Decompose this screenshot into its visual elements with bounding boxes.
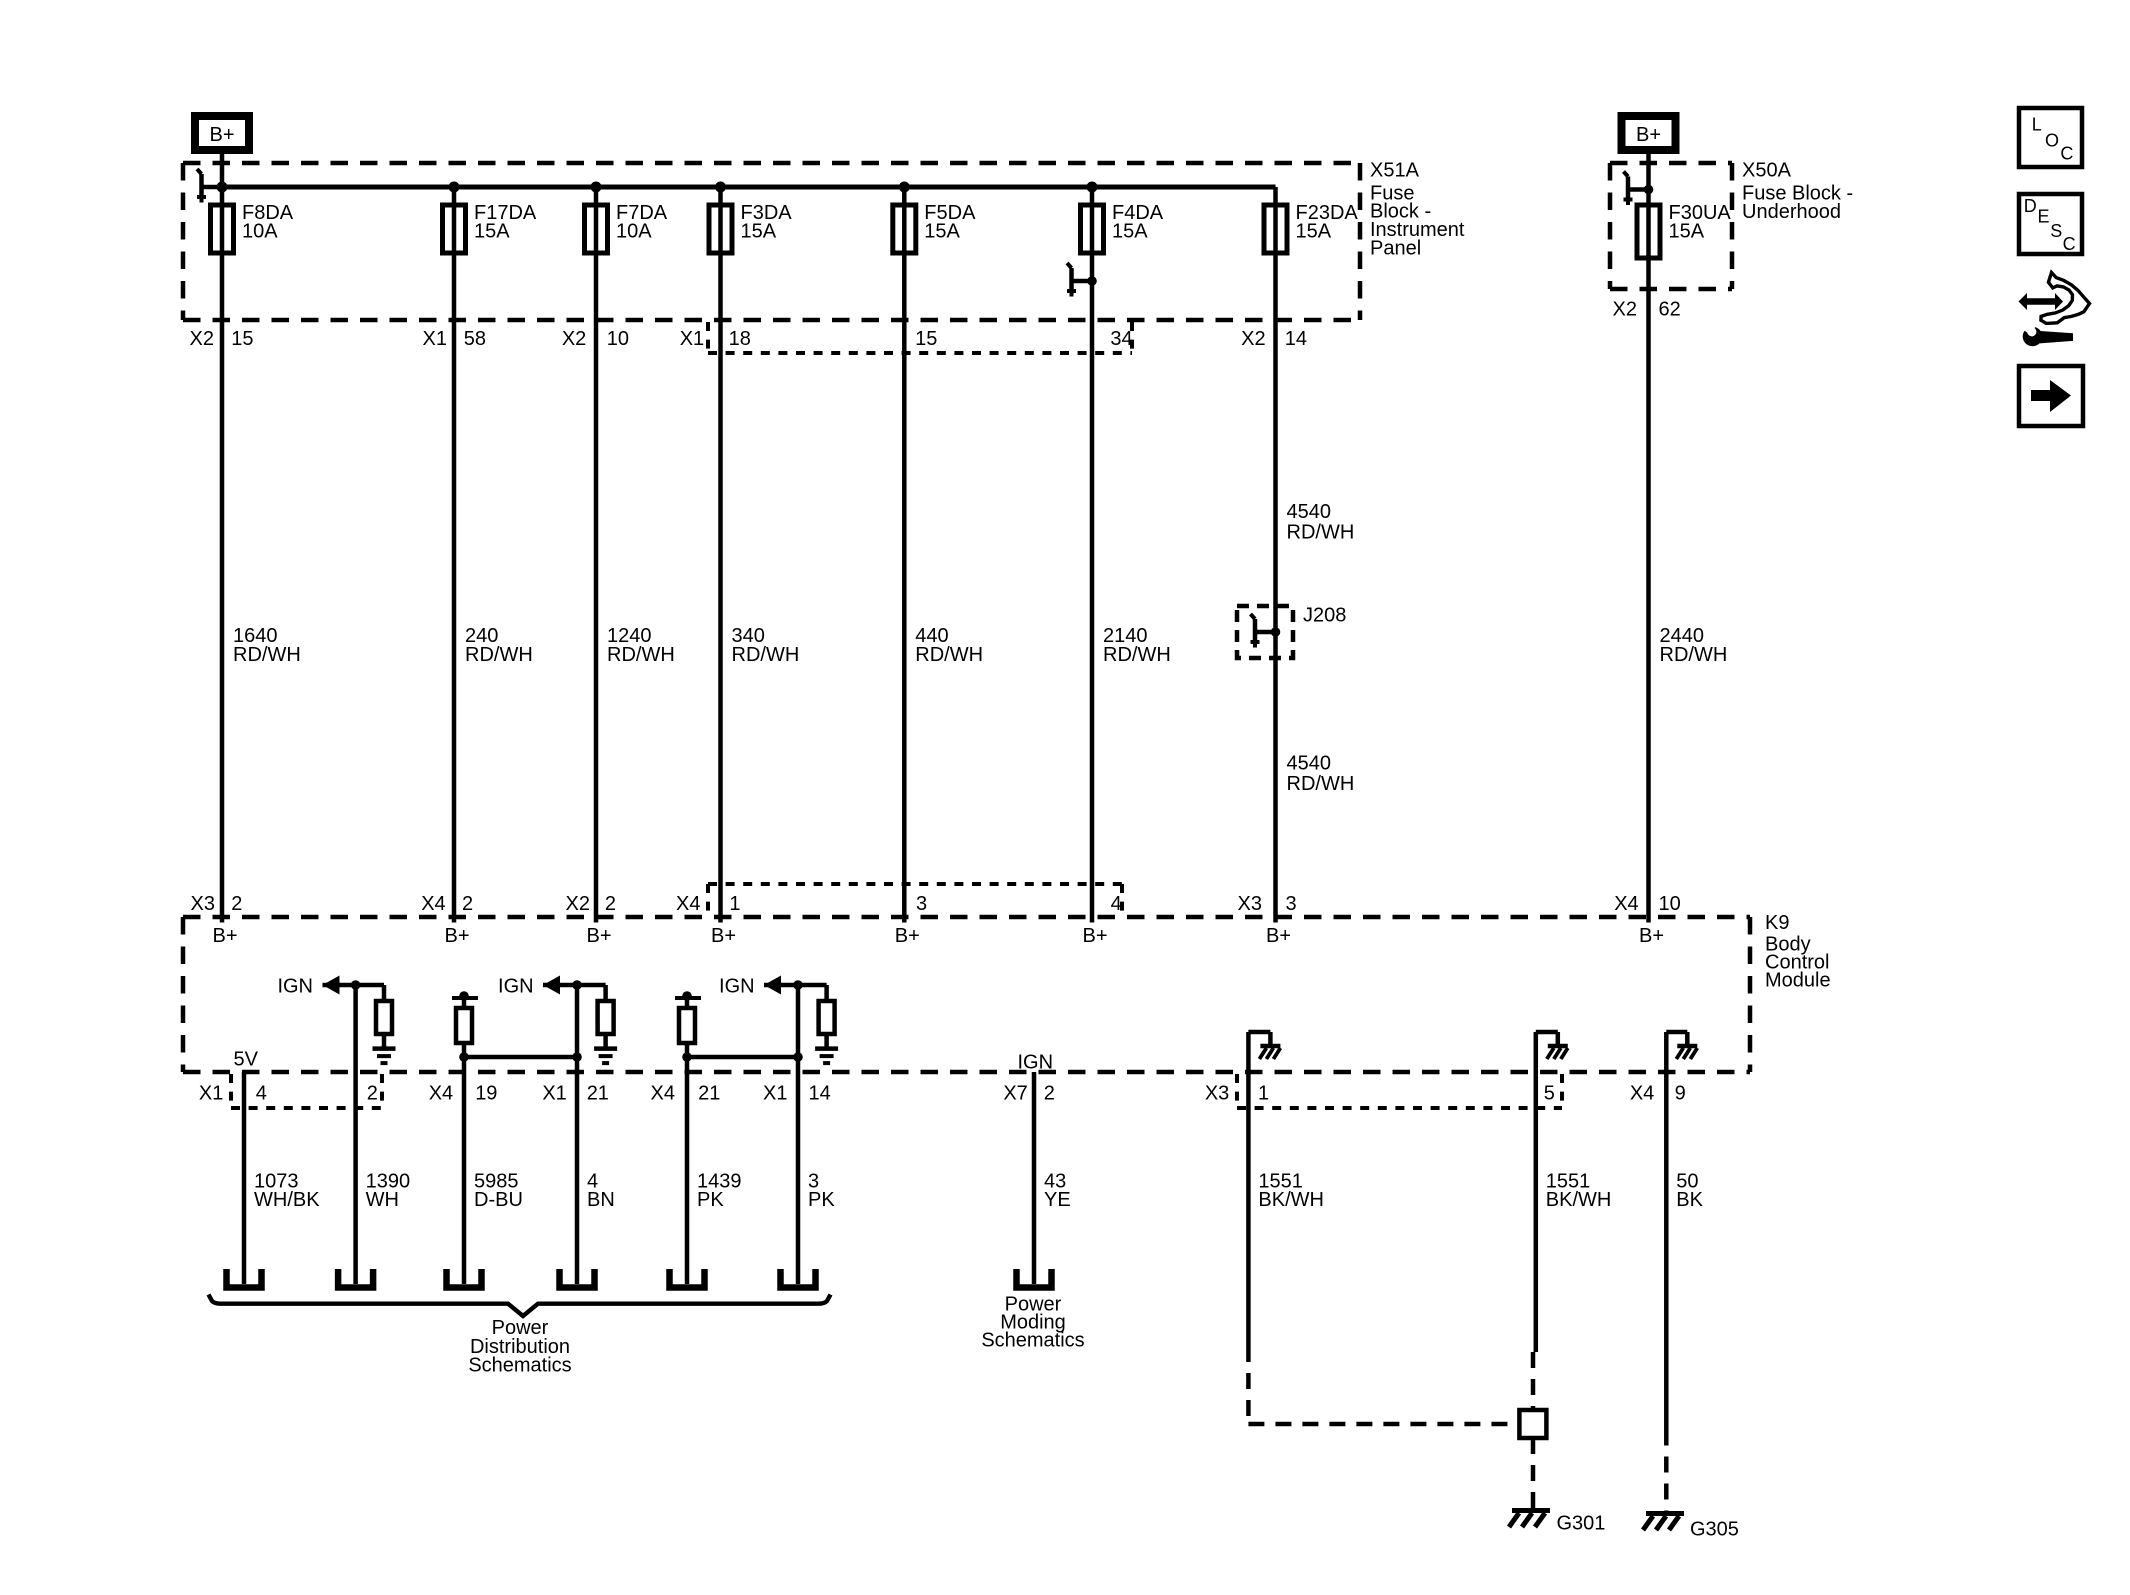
svg-text:IGN: IGN — [277, 976, 313, 998]
svg-text:O: O — [2045, 131, 2059, 151]
svg-text:WH: WH — [366, 1189, 399, 1211]
svg-text:BK/WH: BK/WH — [1258, 1189, 1324, 1211]
svg-text:18: 18 — [729, 328, 751, 350]
svg-text:X3: X3 — [1238, 893, 1262, 915]
svg-text:X4: X4 — [421, 893, 445, 915]
svg-text:15A: 15A — [741, 221, 777, 243]
svg-text:Panel: Panel — [1370, 238, 1421, 260]
svg-text:RD/WH: RD/WH — [915, 644, 983, 666]
svg-text:Module: Module — [1765, 970, 1831, 992]
svg-text:X1: X1 — [680, 328, 704, 350]
svg-text:2: 2 — [367, 1083, 378, 1105]
svg-text:3: 3 — [1286, 893, 1297, 915]
svg-text:4: 4 — [256, 1083, 267, 1105]
svg-text:C: C — [2060, 143, 2073, 163]
svg-text:3: 3 — [916, 893, 927, 915]
svg-text:BK: BK — [1676, 1189, 1703, 1211]
svg-text:X2: X2 — [1241, 328, 1265, 350]
svg-text:Schematics: Schematics — [468, 1354, 571, 1376]
svg-text:X51A: X51A — [1370, 160, 1420, 182]
svg-text:5: 5 — [1544, 1083, 1555, 1105]
svg-text:19: 19 — [475, 1083, 497, 1105]
svg-text:J208: J208 — [1303, 605, 1346, 627]
svg-text:X2: X2 — [562, 328, 586, 350]
svg-text:15A: 15A — [474, 221, 510, 243]
svg-text:2: 2 — [462, 893, 473, 915]
svg-text:D-BU: D-BU — [474, 1189, 523, 1211]
svg-text:5V: 5V — [234, 1048, 259, 1070]
svg-text:RD/WH: RD/WH — [732, 644, 800, 666]
svg-text:1: 1 — [1258, 1083, 1269, 1105]
svg-text:IGN: IGN — [498, 976, 534, 998]
svg-text:X1: X1 — [199, 1083, 223, 1105]
svg-text:21: 21 — [587, 1083, 609, 1105]
svg-text:21: 21 — [698, 1083, 720, 1105]
svg-text:10A: 10A — [616, 221, 652, 243]
svg-text:X3: X3 — [191, 893, 215, 915]
svg-text:RD/WH: RD/WH — [465, 644, 533, 666]
svg-text:62: 62 — [1659, 299, 1681, 321]
svg-text:4540: 4540 — [1287, 501, 1332, 523]
svg-text:X2: X2 — [566, 893, 590, 915]
svg-text:G301: G301 — [1557, 1513, 1606, 1535]
svg-text:RD/WH: RD/WH — [1660, 644, 1728, 666]
svg-text:14: 14 — [1285, 328, 1307, 350]
svg-text:E: E — [2038, 207, 2050, 227]
svg-text:B+: B+ — [212, 925, 237, 947]
svg-text:IGN: IGN — [719, 976, 755, 998]
svg-text:1: 1 — [729, 893, 740, 915]
svg-text:10A: 10A — [242, 221, 278, 243]
svg-text:X3: X3 — [1205, 1083, 1229, 1105]
svg-text:Schematics: Schematics — [981, 1330, 1084, 1352]
svg-text:X4: X4 — [676, 893, 700, 915]
svg-text:15: 15 — [231, 328, 253, 350]
svg-text:10: 10 — [1659, 893, 1681, 915]
svg-text:X2: X2 — [1613, 299, 1637, 321]
svg-text:WH/BK: WH/BK — [254, 1189, 320, 1211]
svg-text:PK: PK — [697, 1189, 724, 1211]
svg-text:2: 2 — [1044, 1083, 1055, 1105]
svg-text:X4: X4 — [651, 1083, 675, 1105]
svg-text:14: 14 — [809, 1083, 831, 1105]
svg-text:X4: X4 — [429, 1083, 453, 1105]
svg-text:15A: 15A — [1112, 221, 1148, 243]
svg-text:B+: B+ — [586, 925, 611, 947]
svg-text:15: 15 — [915, 328, 937, 350]
svg-text:X2: X2 — [190, 328, 214, 350]
svg-text:B+: B+ — [895, 925, 920, 947]
svg-text:10: 10 — [607, 328, 629, 350]
svg-text:34: 34 — [1110, 328, 1132, 350]
svg-text:B+: B+ — [711, 925, 736, 947]
svg-text:RD/WH: RD/WH — [233, 644, 301, 666]
svg-text:X1: X1 — [423, 328, 447, 350]
svg-text:PK: PK — [808, 1189, 835, 1211]
svg-text:S: S — [2050, 221, 2062, 241]
svg-text:IGN: IGN — [1018, 1052, 1054, 1074]
svg-text:2: 2 — [605, 893, 616, 915]
svg-text:BK/WH: BK/WH — [1546, 1189, 1612, 1211]
svg-text:C: C — [2063, 234, 2076, 254]
svg-text:YE: YE — [1044, 1189, 1071, 1211]
svg-text:15A: 15A — [1669, 221, 1705, 243]
svg-text:RD/WH: RD/WH — [1287, 773, 1355, 795]
svg-text:9: 9 — [1675, 1083, 1686, 1105]
svg-text:K9: K9 — [1765, 912, 1789, 934]
svg-text:X1: X1 — [763, 1083, 787, 1105]
svg-text:X4: X4 — [1614, 893, 1638, 915]
svg-text:B+: B+ — [1639, 925, 1664, 947]
svg-text:RD/WH: RD/WH — [607, 644, 675, 666]
svg-text:L: L — [2032, 115, 2042, 135]
svg-text:B+: B+ — [444, 925, 469, 947]
svg-text:B+: B+ — [1266, 925, 1291, 947]
svg-text:G305: G305 — [1690, 1519, 1739, 1541]
svg-text:B+: B+ — [209, 124, 234, 146]
svg-text:RD/WH: RD/WH — [1103, 644, 1171, 666]
svg-text:15A: 15A — [924, 221, 960, 243]
svg-text:2: 2 — [231, 893, 242, 915]
svg-text:X50A: X50A — [1742, 160, 1792, 182]
svg-text:B+: B+ — [1082, 925, 1107, 947]
svg-text:4540: 4540 — [1287, 753, 1332, 775]
svg-text:Underhood: Underhood — [1742, 201, 1841, 223]
svg-text:X7: X7 — [1003, 1083, 1027, 1105]
svg-text:B+: B+ — [1636, 124, 1661, 146]
svg-text:X1: X1 — [542, 1083, 566, 1105]
svg-text:X4: X4 — [1630, 1083, 1654, 1105]
svg-text:RD/WH: RD/WH — [1287, 521, 1355, 543]
svg-text:58: 58 — [464, 328, 486, 350]
svg-text:15A: 15A — [1296, 221, 1332, 243]
svg-text:D: D — [2024, 196, 2037, 216]
svg-text:BN: BN — [587, 1189, 615, 1211]
